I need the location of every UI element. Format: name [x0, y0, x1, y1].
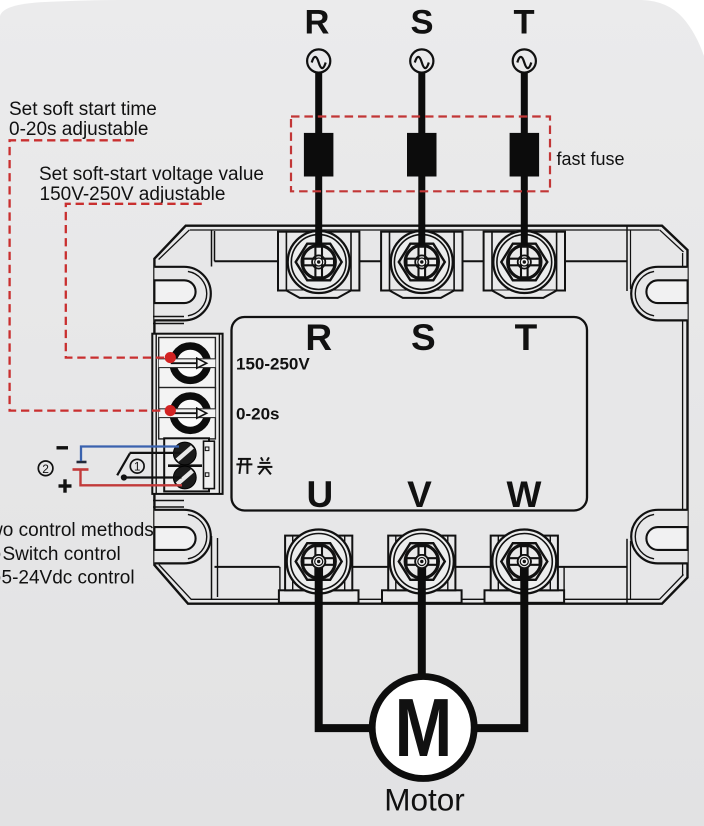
wire phase S: [418, 73, 425, 247]
svg-text:S: S: [411, 317, 436, 358]
circled 1 label (switch control): [130, 459, 144, 473]
terminal T (top): [484, 231, 565, 298]
wire W to motor: [471, 562, 524, 729]
svg-text:5-24Vdc control: 5-24Vdc control: [2, 568, 135, 589]
screw cross terminal R: [303, 247, 334, 278]
switch S1 fixed wire: [130, 452, 181, 454]
svg-text:T: T: [515, 317, 538, 358]
svg-text:Set soft start time: Set soft start time: [9, 99, 157, 120]
red dot on VR1: [165, 352, 176, 363]
switch S1 moving contact wire: [124, 476, 182, 478]
terminal V (bottom): [382, 530, 462, 603]
red wire plus to terminal: [81, 471, 183, 486]
svg-text:U: U: [307, 474, 334, 515]
note: switch control: [0, 544, 121, 565]
AC source T: [513, 49, 536, 72]
terminal S (top): [381, 231, 462, 298]
fuse F1: [304, 133, 334, 177]
note: 5-24Vdc control: [0, 568, 135, 589]
screw center cap terminal U: [312, 555, 325, 568]
svg-text:Switch control: Switch control: [3, 544, 121, 565]
panel label kaiguan (switch) hand-drawn glyphs: [236, 457, 272, 474]
screw cross terminal W: [509, 546, 540, 577]
svg-text:Set soft-start voltage value: Set soft-start voltage value: [39, 164, 264, 185]
svg-text:0-20s adjustable: 0-20s adjustable: [9, 119, 148, 140]
circled 2 label (5-24Vdc control): [38, 461, 53, 476]
DC source plus label: [59, 479, 72, 492]
mounting ear bottom-right with slot: [631, 510, 687, 564]
mounting ear bottom-left with slot: [154, 510, 210, 564]
left step lines between ear and potentiometer block: [153, 317, 184, 508]
svg-text:Two control methods: Two control methods: [0, 520, 154, 541]
screw center cap terminal W: [518, 555, 531, 568]
DC source minus label: [57, 446, 69, 449]
svg-text:R: R: [305, 4, 330, 42]
potentiometer block housing: [152, 334, 222, 494]
switch S1 pivot dot: [121, 474, 127, 480]
svg-text:R: R: [305, 317, 332, 358]
terminal W (bottom): [485, 530, 565, 603]
wire U to motor: [319, 562, 375, 729]
dashed leader to VR1 (150-250V): [66, 204, 202, 358]
screw cross terminal T: [509, 247, 540, 278]
svg-text:150-250V: 150-250V: [236, 355, 310, 374]
AC source R: [307, 49, 330, 72]
control terminal block: [164, 438, 214, 491]
control screw terminal 1 (upper): [173, 442, 196, 465]
bottom heat-sink band edge: [212, 536, 631, 603]
svg-text:0-20s: 0-20s: [236, 405, 279, 424]
switch S1 lever: [117, 454, 130, 476]
svg-text:Motor: Motor: [384, 782, 465, 818]
svg-text:2: 2: [42, 462, 49, 476]
fuse box red dashed outline: [291, 117, 550, 192]
svg-text:W: W: [507, 474, 542, 515]
front panel rounded rectangle: [232, 317, 588, 511]
screw cross terminal S: [407, 247, 438, 278]
AC source S: [410, 49, 433, 72]
svg-text:150V-250V adjustable: 150V-250V adjustable: [40, 184, 226, 205]
fuse F3: [510, 133, 539, 177]
svg-text:T: T: [513, 4, 534, 42]
svg-text:fast fuse: fast fuse: [557, 149, 625, 169]
potentiometer VR2 0-20s: [159, 388, 216, 439]
screw cross terminal U: [303, 546, 334, 577]
terminal R (top): [278, 231, 359, 298]
svg-text:V: V: [407, 474, 432, 515]
screw cross terminal V: [407, 546, 438, 577]
wire phase R: [315, 73, 322, 247]
wire V to motor: [418, 562, 426, 680]
blue wire minus to terminal: [81, 447, 179, 462]
terminal U (bottom): [279, 530, 359, 603]
svg-text:M: M: [394, 682, 452, 774]
fuse F2: [407, 133, 437, 177]
soft starter module body outline: [154, 226, 687, 604]
battery negative plate: [77, 461, 87, 464]
battery positive plate: [73, 468, 89, 471]
red dot on VR2: [165, 405, 176, 416]
potentiometer VR1 150-250V: [159, 338, 216, 389]
motor M1: [372, 677, 474, 779]
svg-text:1: 1: [134, 462, 140, 474]
mounting ear top-left with slot: [154, 267, 210, 321]
control screw terminal 2 (lower): [173, 466, 196, 489]
dashed leader to VR2 (0-20s): [10, 140, 164, 410]
svg-text:S: S: [410, 4, 433, 42]
mounting ear top-right with slot: [631, 267, 687, 321]
top heat-sink band edge: [212, 226, 631, 291]
screw center cap terminal V: [415, 555, 428, 568]
wire phase T: [521, 73, 528, 247]
